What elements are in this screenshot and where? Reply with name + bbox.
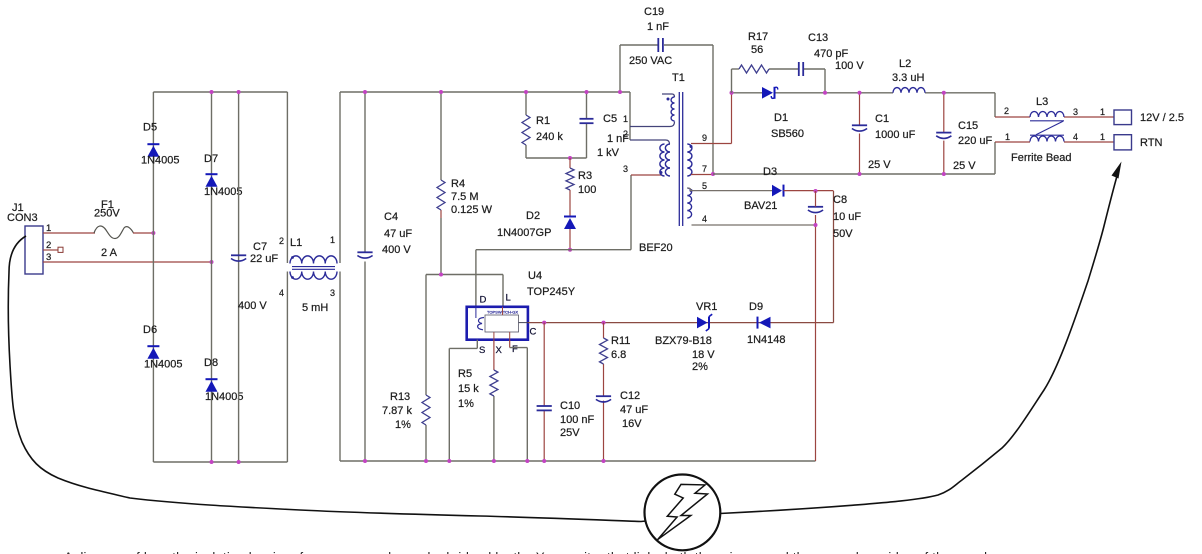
svg-text:240 k: 240 k: [536, 131, 563, 143]
svg-text:C5: C5: [603, 113, 617, 125]
junction D7 column bottom: [210, 460, 214, 464]
resistor R1 240k: [522, 115, 563, 145]
svg-text:2 A: 2 A: [101, 247, 118, 259]
svg-text:C13: C13: [808, 32, 828, 44]
junction fuse-bridge: [151, 231, 155, 235]
wire R13 column: [425, 275, 427, 462]
diode D2 1N4007GP: [497, 210, 576, 239]
fuse F1: [94, 199, 134, 259]
transformer T1 BEF20: [623, 72, 707, 254]
capacitor C1 1000uF 25V: [852, 113, 916, 171]
junction C1 top: [858, 91, 862, 95]
svg-text:6.8: 6.8: [611, 349, 626, 361]
wire J1 pin3 to bridge: [43, 261, 212, 263]
svg-text:2: 2: [46, 240, 51, 251]
wire C8 column: [815, 191, 817, 461]
svg-text:1: 1: [1100, 107, 1105, 117]
svg-text:7: 7: [702, 164, 707, 174]
connector output 12V: [1114, 110, 1184, 125]
wire T1 pin3 vertical: [630, 175, 632, 250]
wire DC+ top rail left box: [153, 91, 287, 93]
svg-text:C19: C19: [644, 6, 664, 18]
svg-text:1N4005: 1N4005: [141, 155, 180, 167]
svg-text:7.87 k: 7.87 k: [382, 405, 412, 417]
wire output positive step: [995, 93, 1114, 117]
svg-text:R13: R13: [390, 391, 410, 403]
svg-text:L: L: [506, 293, 511, 304]
svg-text:D5: D5: [143, 122, 157, 134]
svg-text:1: 1: [623, 114, 628, 124]
junction C4 top: [363, 90, 367, 94]
diode D8 1N4005: [204, 357, 244, 403]
svg-text:D9: D9: [749, 301, 763, 313]
svg-text:47 uF: 47 uF: [384, 228, 412, 240]
wire C4 column: [364, 92, 366, 461]
svg-text:D2: D2: [526, 210, 540, 222]
svg-text:1N4007GP: 1N4007GP: [497, 227, 551, 239]
svg-text:50V: 50V: [833, 228, 853, 240]
wire bridge second vertical: [211, 92, 213, 462]
wire F pin hook: [510, 340, 528, 461]
diode D3 BAV21: [744, 166, 784, 212]
junction D1 anode node: [730, 91, 734, 95]
junction R13 bottom: [424, 459, 428, 463]
svg-text:C1: C1: [875, 113, 889, 125]
wire DC- bottom rail left box: [153, 461, 287, 463]
resistor R17 56: [739, 31, 769, 73]
capacitor C15 220uF 25V: [936, 120, 992, 172]
svg-text:A diagram of how the isolation: A diagram of how the isolation barrier o…: [64, 550, 997, 554]
svg-text:3: 3: [623, 164, 628, 174]
svg-text:1: 1: [330, 235, 335, 245]
junction R1 top: [524, 90, 528, 94]
capacitor C4 47uF 400V: [357, 211, 412, 258]
wire T1 pin9 lead: [691, 93, 732, 144]
resistor R4 7.5M 0.125W: [437, 178, 493, 216]
junction C1 bottom: [858, 172, 862, 176]
svg-text:VR1: VR1: [696, 301, 717, 313]
svg-text:2: 2: [279, 236, 284, 246]
svg-text:250 VAC: 250 VAC: [629, 55, 672, 67]
svg-text:400 V: 400 V: [382, 244, 411, 256]
wire feedback riser to C8: [833, 191, 835, 323]
wire T1 pin5 to D3: [688, 188, 773, 191]
resistor R3 100: [566, 168, 596, 196]
inductor L2 3.3uH: [892, 58, 925, 93]
svg-text:400 V: 400 V: [238, 300, 267, 312]
capacitor C19 1nF 250VAC: [629, 6, 672, 67]
svg-text:100: 100: [578, 184, 596, 196]
svg-text:250V: 250V: [94, 208, 120, 220]
wire DC+ top rail middle: [340, 91, 630, 93]
svg-text:R1: R1: [536, 115, 550, 127]
svg-text:3: 3: [330, 288, 335, 298]
junction C7 bottom: [237, 460, 241, 464]
svg-text:C4: C4: [384, 211, 398, 223]
wire C15 column: [943, 93, 945, 174]
wire R3/D2 column: [569, 158, 571, 250]
diode D9 1N4148: [747, 301, 786, 346]
svg-text:25 V: 25 V: [953, 160, 976, 172]
wire C pin / feedback line: [528, 322, 834, 324]
svg-text:D: D: [480, 295, 487, 306]
svg-text:R17: R17: [748, 31, 768, 43]
svg-text:L2: L2: [899, 58, 911, 70]
capacitor C7 22uF 400V: [231, 241, 278, 312]
wire secondary positive rail: [732, 92, 996, 94]
isolation barrier curve with arrow: [8, 162, 1121, 522]
svg-text:2%: 2%: [692, 361, 708, 373]
svg-text:1N4005: 1N4005: [144, 359, 183, 371]
junction F column bottom: [525, 459, 529, 463]
resistor R13 7.87k 1%: [382, 391, 430, 431]
capacitor C13 470pF 100V: [799, 32, 865, 76]
capacitor C5 1nF 1kV: [580, 113, 630, 159]
svg-text:56: 56: [751, 44, 763, 56]
svg-text:C10: C10: [560, 400, 580, 412]
junction pin3-bridge: [210, 260, 214, 264]
svg-text:R11: R11: [611, 335, 630, 347]
svg-text:1: 1: [1100, 132, 1105, 142]
wire R17/C13 snubber branch: [732, 69, 826, 93]
svg-text:3.3 uH: 3.3 uH: [892, 72, 924, 84]
wire T1 pin4 lead: [692, 224, 816, 226]
svg-text:100 V: 100 V: [835, 60, 864, 72]
svg-text:1: 1: [1005, 132, 1010, 142]
svg-text:5: 5: [702, 181, 707, 191]
svg-text:1%: 1%: [395, 419, 411, 431]
svg-text:9: 9: [702, 133, 707, 143]
svg-text:25V: 25V: [560, 427, 580, 439]
wire rail into T1 primary: [630, 92, 675, 144]
wire fuse to bridge node: [133, 232, 153, 234]
svg-text:S: S: [479, 345, 485, 356]
capacitor C8 10uF 50V: [808, 194, 862, 240]
svg-text:D3: D3: [763, 166, 777, 178]
junction C7 top: [237, 90, 241, 94]
connector J1 CON3: [7, 202, 51, 274]
wire drain to D pin: [475, 250, 477, 307]
wire C19 loop: [620, 45, 713, 174]
svg-text:1N4005: 1N4005: [205, 391, 244, 403]
junction snubber return: [823, 91, 827, 95]
junction C12 bottom: [602, 459, 606, 463]
wire S pin hook: [449, 340, 477, 461]
svg-text:SB560: SB560: [771, 128, 804, 140]
svg-text:BZX79-B18: BZX79-B18: [655, 335, 712, 347]
svg-text:R3: R3: [578, 170, 592, 182]
isolation barrier lightning symbol: [645, 475, 721, 551]
junction C19 left on rail: [618, 90, 622, 94]
svg-text:100 nF: 100 nF: [560, 414, 595, 426]
wire T1 pin7 lead: [691, 174, 713, 176]
zener VR1 BZX79-B18: [655, 301, 717, 373]
svg-text:2: 2: [623, 129, 628, 139]
svg-text:C7: C7: [253, 241, 267, 253]
svg-text:470 pF: 470 pF: [814, 48, 849, 60]
svg-text:220 uF: 220 uF: [958, 135, 993, 147]
junction C5 top: [585, 90, 589, 94]
svg-text:16V: 16V: [622, 418, 642, 430]
junction C15 bottom: [942, 172, 946, 176]
wire T1 pin3 lead: [631, 174, 662, 176]
op-amp U4 TOP245Y switcher IC: [467, 270, 576, 356]
wire R4 column: [440, 92, 442, 275]
junction D7 column top: [210, 90, 214, 94]
inductor L3 ferrite bead: [1004, 96, 1105, 164]
wire X pin to R5: [493, 340, 495, 461]
svg-text:TOP245Y: TOP245Y: [527, 286, 576, 298]
caption text cut off at bottom edge: [64, 550, 997, 554]
svg-text:5 mH: 5 mH: [302, 302, 328, 314]
svg-text:F: F: [512, 344, 518, 355]
svg-text:1: 1: [46, 223, 51, 234]
junction D2 anode / drain line: [568, 248, 572, 252]
junction C15 top: [942, 91, 946, 95]
junction R3 top: [568, 156, 572, 160]
wire bridge left vertical: [152, 92, 154, 462]
svg-text:3: 3: [1073, 107, 1078, 117]
junction C10 bottom: [542, 459, 546, 463]
svg-text:BAV21: BAV21: [744, 200, 777, 212]
svg-text:1 kV: 1 kV: [597, 147, 620, 159]
junction C4 bottom: [363, 459, 367, 463]
svg-text:3: 3: [46, 252, 51, 263]
wire L1 left column top: [286, 92, 288, 263]
svg-text:1N4005: 1N4005: [204, 186, 243, 198]
wire output return step: [995, 142, 1114, 174]
svg-text:T1: T1: [672, 72, 685, 84]
wire J1 pin1 to fuse: [43, 232, 95, 234]
wire R1 column top: [525, 92, 527, 158]
junction R5 bottom: [492, 459, 496, 463]
wire C10 column: [543, 323, 545, 461]
junction C pin node: [542, 321, 546, 325]
svg-text:C8: C8: [833, 194, 847, 206]
wire C5 column: [586, 92, 588, 158]
wire C1 column: [859, 93, 861, 174]
svg-text:4: 4: [702, 214, 707, 224]
svg-text:CON3: CON3: [7, 212, 38, 224]
wire drain line: [476, 249, 631, 251]
svg-text:BEF20: BEF20: [639, 242, 673, 254]
junction S column bottom: [447, 459, 451, 463]
diode D7 1N4005: [204, 153, 243, 198]
wire L1 right column top: [339, 92, 341, 263]
svg-text:Ferrite Bead: Ferrite Bead: [1011, 152, 1072, 164]
inductor L1 5mH common-mode choke: [279, 235, 337, 314]
wire C7 column: [238, 92, 240, 462]
diode D5 1N4005: [141, 122, 180, 167]
wire R11/C12 column: [603, 323, 605, 461]
svg-text:4: 4: [1073, 132, 1078, 142]
diode D1 SB560 schottky: [762, 87, 804, 140]
svg-text:D1: D1: [774, 112, 788, 124]
svg-text:R4: R4: [451, 178, 465, 190]
svg-text:47 uF: 47 uF: [620, 404, 648, 416]
svg-text:4: 4: [279, 288, 284, 298]
wire R1/C5 bottom join: [526, 157, 587, 159]
svg-text:2: 2: [1004, 106, 1009, 116]
junction pin7 / C19 return: [711, 172, 715, 176]
junction R4 bottom / L wire: [439, 273, 443, 277]
svg-text:0.125 W: 0.125 W: [451, 204, 493, 216]
svg-text:D6: D6: [143, 324, 157, 336]
svg-text:C12: C12: [620, 390, 640, 402]
svg-text:22 uF: 22 uF: [250, 253, 278, 265]
svg-text:15 k: 15 k: [458, 383, 479, 395]
svg-text:L1: L1: [290, 237, 302, 249]
svg-text:1000 uF: 1000 uF: [875, 129, 916, 141]
svg-text:X: X: [496, 345, 503, 356]
svg-text:D7: D7: [204, 153, 218, 165]
wire L-pin horizontal: [426, 274, 503, 276]
svg-text:R5: R5: [458, 368, 472, 380]
svg-text:1N4148: 1N4148: [747, 334, 786, 346]
svg-text:1%: 1%: [458, 398, 474, 410]
svg-text:D8: D8: [204, 357, 218, 369]
wire L pin drop: [502, 275, 504, 307]
wire D3 cathode to C8: [784, 190, 834, 192]
svg-text:C15: C15: [958, 120, 978, 132]
wire secondary ground rail: [713, 173, 995, 175]
svg-text:25 V: 25 V: [868, 159, 891, 171]
svg-text:7.5 M: 7.5 M: [451, 191, 479, 203]
connector output RTN: [1114, 135, 1162, 150]
junction R4 top: [439, 90, 443, 94]
svg-text:L3: L3: [1036, 96, 1048, 108]
wire primary ground bottom rail: [340, 460, 816, 462]
svg-text:RTN: RTN: [1140, 137, 1162, 149]
wire L1 right column bottom: [339, 272, 341, 462]
junction C8 bottom / pin4: [814, 223, 818, 227]
wire L1 left column bottom: [286, 272, 288, 463]
svg-text:18 V: 18 V: [692, 349, 715, 361]
svg-text:12V / 2.5: 12V / 2.5: [1140, 112, 1184, 124]
junction C8 top: [814, 189, 818, 193]
capacitor C12 47uF 16V: [596, 390, 649, 430]
svg-text:U4: U4: [528, 270, 542, 282]
junction R11 top: [602, 321, 606, 325]
resistor R11 6.8: [600, 335, 631, 364]
capacitor C10 100nF 25V: [537, 400, 595, 439]
wire J1 pin2 no-connect stub: [43, 247, 63, 252]
svg-text:1 nF: 1 nF: [647, 21, 669, 33]
diode D6 1N4005: [143, 324, 183, 371]
svg-text:C: C: [530, 327, 537, 338]
svg-text:10 uF: 10 uF: [833, 211, 861, 223]
resistor R5 15k 1%: [458, 368, 498, 410]
